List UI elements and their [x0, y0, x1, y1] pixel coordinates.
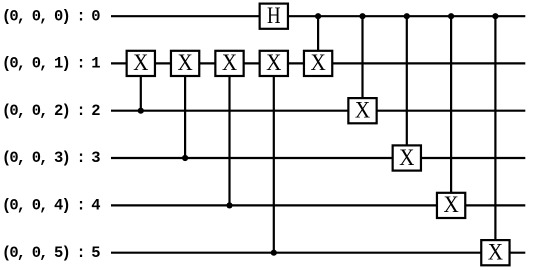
CNOT2 vertical wire q1-q3 [184, 63, 186, 158]
svg-text:X: X [177, 50, 193, 75]
svg-text:(0, 0, 1) : 1: (0, 0, 1) : 1 [2, 55, 101, 73]
gate X target on q5 (col 9) [481, 240, 509, 266]
svg-text:(0, 0, 2) : 2: (0, 0, 2) : 2 [2, 102, 101, 120]
svg-text:(0, 0, 0) : 0: (0, 0, 0) : 0 [2, 7, 101, 25]
gate X target on q1 (col 3) [215, 50, 243, 76]
gate H on q0 [260, 3, 288, 29]
svg-text:X: X [222, 50, 238, 75]
wire qubit 3 [111, 157, 525, 159]
gate X target on q3 (col 7) [393, 145, 421, 171]
gate X target on q1 (col 5) [304, 50, 332, 76]
svg-text:(0, 0, 5) : 5: (0, 0, 5) : 5 [2, 244, 101, 262]
wire qubit 5 [111, 252, 525, 254]
CNOT3 vertical wire q1-q4 [228, 63, 230, 205]
svg-text:(0, 0, 4) : 4: (0, 0, 4) : 4 [2, 197, 101, 215]
gate X target on q2 (col 6) [348, 98, 376, 124]
wire qubit 0 [111, 15, 525, 17]
CNOT1 control dot on q2 [138, 108, 144, 114]
CNOT8 vertical wire q0-q4 [450, 16, 452, 205]
CNOT9 vertical wire q0-q5 [494, 16, 496, 253]
svg-text:X: X [133, 50, 149, 75]
CNOT5 vertical wire q0-q1 [317, 16, 319, 63]
CNOT3 control dot on q4 [226, 202, 232, 208]
CNOT9 control dot on q0 [492, 13, 498, 19]
gate X target on q1 (col 2) [171, 50, 199, 76]
CNOT2 control dot on q3 [182, 155, 188, 161]
wire qubit 4 [111, 204, 525, 206]
wire qubit 1 [111, 62, 525, 64]
CNOT7 control dot on q0 [404, 13, 410, 19]
CNOT6 control dot on q0 [359, 13, 365, 19]
svg-text:X: X [443, 192, 459, 217]
CNOT4 control dot on q5 [271, 250, 277, 256]
wire qubit 2 [111, 110, 525, 112]
svg-text:(0, 0, 3) : 3: (0, 0, 3) : 3 [2, 149, 101, 167]
CNOT4 vertical wire q1-q5 [273, 63, 275, 252]
svg-text:X: X [266, 50, 282, 75]
CNOT6 vertical wire q0-q2 [361, 16, 363, 111]
svg-text:X: X [355, 98, 371, 123]
CNOT5 control dot on q0 [315, 13, 321, 19]
CNOT1 vertical wire q1-q2 [140, 63, 142, 110]
gate X target on q1 (col 1) [127, 50, 155, 76]
svg-text:X: X [310, 50, 326, 75]
svg-text:H: H [267, 3, 281, 28]
svg-text:X: X [399, 145, 415, 170]
CNOT8 control dot on q0 [448, 13, 454, 19]
svg-text:X: X [488, 240, 504, 265]
CNOT7 vertical wire q0-q3 [406, 16, 408, 158]
gate X target on q4 (col 8) [437, 192, 465, 218]
gate X target on q1 (col 4) [260, 50, 288, 76]
